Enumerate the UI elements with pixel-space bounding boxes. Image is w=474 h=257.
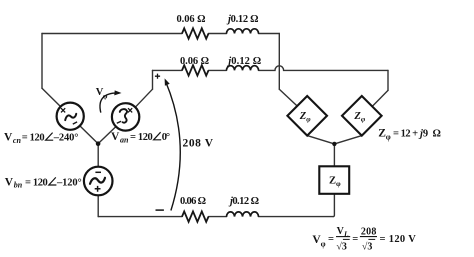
wire load node down to box Zphi (333, 144, 335, 166)
wire diagonal Van to middle line (136, 89, 153, 107)
svg-text:= 12: = 12 (393, 129, 411, 140)
wire left vertical from top corner (41, 34, 43, 89)
svg-text:= 120: = 120 (130, 132, 153, 143)
svg-text:= 120: = 120 (22, 133, 45, 144)
wire top line between R and L (209, 33, 227, 35)
minus mark 208V bottom (156, 209, 164, 211)
source Van circle (112, 103, 139, 130)
svg-text:Ω: Ω (433, 129, 441, 140)
svg-text:√3: √3 (362, 241, 373, 252)
wire top line left lead (42, 33, 182, 35)
wire middle line between R and L (209, 69, 227, 71)
svg-text:cn: cn (13, 136, 22, 145)
source Vbn minus mark (95, 171, 101, 173)
svg-text:–240°: –240° (53, 133, 79, 144)
svg-text:208 V: 208 V (183, 138, 214, 150)
wire right diamond bottom to load node (334, 136, 361, 144)
svg-text:0.06 Ω: 0.06 Ω (180, 196, 206, 207)
source Vbn circle (84, 167, 113, 196)
source Van minus mark (117, 121, 121, 123)
svg-text:V: V (4, 132, 13, 144)
wire neutral node down to source Vbn (97, 144, 99, 166)
inductor j0.12 ohm middle line (227, 66, 259, 71)
svg-text:an: an (120, 135, 129, 144)
source Vcn minus mark (73, 122, 77, 124)
svg-text:0.06 Ω: 0.06 Ω (177, 14, 206, 25)
svg-text:j0.12 Ω: j0.12 Ω (228, 196, 259, 207)
arrow arc 208V (166, 82, 181, 211)
resistor 0.06 ohm top line (182, 28, 208, 38)
resistor 0.06 ohm middle line (182, 65, 208, 75)
svg-text:= 120: = 120 (25, 177, 48, 188)
source Van plus mark (x) (128, 108, 132, 112)
svg-text:=: = (352, 234, 358, 245)
source Vbn sine (90, 178, 105, 184)
source Vcn sine (65, 114, 77, 120)
wire right vertical from middle line (387, 70, 389, 90)
svg-text:=: = (328, 234, 334, 245)
source Van sine (120, 109, 127, 123)
svg-text:V: V (5, 176, 14, 188)
wire middle line after L with hop over vertical (259, 66, 389, 71)
svg-text:bn: bn (14, 181, 23, 190)
svg-text:φ: φ (321, 239, 326, 248)
wire diagonal to source Vcn (42, 88, 60, 106)
source Vcn plus mark (x) (61, 108, 65, 112)
wire box Zphi down to bottom corner (333, 194, 334, 217)
angle symbol Vbn (49, 177, 57, 185)
wire middle line left lead (153, 69, 183, 71)
wire diagonal Vcn to neutral node (80, 126, 98, 143)
svg-text:√3: √3 (336, 241, 347, 252)
svg-text:L: L (343, 230, 349, 239)
inductor j0.12 ohm top line (227, 29, 259, 34)
svg-text:j0.12 Ω: j0.12 Ω (226, 14, 259, 25)
svg-text:0.06 Ω: 0.06 Ω (180, 56, 209, 67)
wire bottom line right segment (259, 216, 334, 218)
load impedance Zphi right diamond (342, 96, 382, 136)
svg-text:V: V (111, 131, 120, 143)
wire right vertical from top line (278, 34, 280, 90)
wire diagonal into right load diamond (373, 90, 388, 105)
arrow arc Vphi (100, 93, 119, 113)
svg-text:j9: j9 (418, 129, 428, 140)
source Vcn circle (57, 103, 84, 130)
neutral node dot (96, 141, 101, 146)
svg-text:+: + (412, 129, 418, 140)
resistor 0.06 ohm bottom line (182, 211, 208, 221)
wire diagonal Van to neutral node (98, 127, 115, 144)
wire left diamond bottom to load node (307, 136, 334, 144)
angle symbol Vcn (46, 133, 54, 141)
svg-text:–120°: –120° (56, 177, 82, 188)
svg-text:208: 208 (361, 227, 377, 238)
angle symbol Van (154, 132, 162, 140)
svg-text:j0.12 Ω: j0.12 Ω (226, 56, 261, 67)
wire source Vbn down to bottom line (97, 196, 99, 217)
svg-text:= 120 V: = 120 V (380, 234, 417, 245)
svg-text:φ: φ (386, 133, 391, 142)
load impedance Zphi box (319, 166, 349, 194)
wire top line after L to right corner (259, 33, 280, 35)
wire bottom line left lead (98, 216, 182, 218)
wire middle line left vertical jog (152, 70, 154, 89)
load star node dot (332, 142, 336, 146)
svg-text:0°: 0° (162, 132, 170, 143)
inductor j0.12 ohm bottom line (227, 212, 259, 217)
load impedance Zphi left diamond (287, 96, 327, 136)
wire diagonal into left load diamond (279, 89, 297, 106)
source Vbn plus mark (95, 186, 101, 192)
wire bottom line between L and R (209, 216, 227, 218)
plus mark 208V top (155, 74, 160, 79)
